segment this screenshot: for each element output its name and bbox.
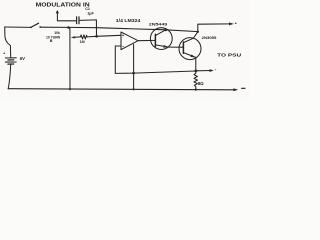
wire inverting input loop	[115, 46, 121, 73]
terminal arrow top right	[229, 22, 234, 25]
node pot top	[67, 26, 70, 29]
wire cap to drop	[79, 20, 96, 36]
wire emitter node to output arrow	[196, 70, 211, 72]
Q2 collector	[183, 32, 197, 43]
node V- ground	[133, 88, 135, 90]
svg-text:10 TURN: 10 TURN	[46, 35, 61, 39]
svg-text:1M: 1M	[80, 40, 85, 44]
potentiometer R1 element	[69, 28, 71, 90]
svg-text:8Ω: 8Ω	[198, 81, 204, 86]
node Q2 collector rail	[197, 31, 199, 33]
wire left vertical from top corner to battery	[5, 27, 11, 58]
transistor Q1 2N5449	[150, 28, 172, 50]
terminal arrow bottom right	[233, 88, 238, 91]
svg-text:C1: C1	[85, 7, 90, 11]
node cap / wiper junction	[95, 35, 98, 38]
minus label bottom right	[242, 87, 245, 89]
svg-text:1/4 LM324: 1/4 LM324	[116, 18, 141, 23]
op-amp U1 1/4 LM324	[121, 32, 138, 50]
wire battery to bottom rail	[8, 64, 11, 89]
wire feedback bottom to emitter node	[115, 71, 196, 73]
Q2 emitter with arrow	[183, 53, 195, 58]
modulation input terminal arrow	[56, 10, 59, 14]
svg-text:−: −	[122, 44, 125, 49]
transistor Q2 2N3055	[179, 38, 201, 60]
wire bottom rail	[8, 89, 234, 90]
svg-text:+: +	[122, 33, 125, 38]
svg-text:6V: 6V	[20, 56, 25, 61]
wire Q1 emitter to Q2 base	[169, 46, 184, 48]
wire op-amp V- to ground	[133, 44, 135, 89]
wire Q2 emitter down	[195, 57, 197, 71]
Q1 collector	[155, 30, 165, 36]
svg-text:+: +	[215, 68, 217, 72]
wire top rail to collectors	[40, 27, 198, 31]
wire mod input to cap	[57, 20, 76, 22]
switch S1	[31, 23, 39, 27]
node pot bottom	[69, 88, 71, 90]
svg-text:1µF: 1µF	[87, 11, 94, 15]
wire op-amp output to Q1 base	[138, 39, 155, 41]
wire top-left rail	[5, 26, 31, 28]
battery B1 6V	[5, 57, 16, 59]
Q1 emitter with arrow	[155, 45, 168, 47]
svg-text:B: B	[50, 39, 53, 43]
capacitor C1 plates	[76, 17, 78, 24]
resistor R2 8ohm	[194, 71, 197, 90]
node emitter junction	[194, 70, 197, 73]
svg-text:2N5449: 2N5449	[149, 22, 169, 27]
node feedback / V- cross	[132, 72, 135, 75]
terminal arrow mid right	[209, 69, 214, 72]
resistor R3 1M	[80, 35, 87, 39]
wire 1M to op-amp + input	[87, 35, 121, 37]
pot wiper arrow	[71, 36, 75, 38]
node Q1 collector rail	[165, 29, 168, 32]
node R2 bottom	[195, 89, 197, 91]
svg-text:TO PSU: TO PSU	[217, 52, 242, 58]
switch contact dots	[30, 27, 32, 29]
svg-text:MODULATION IN: MODULATION IN	[36, 2, 91, 8]
svg-text:2N3055: 2N3055	[202, 36, 217, 40]
wire collector node up to + output	[198, 24, 231, 32]
